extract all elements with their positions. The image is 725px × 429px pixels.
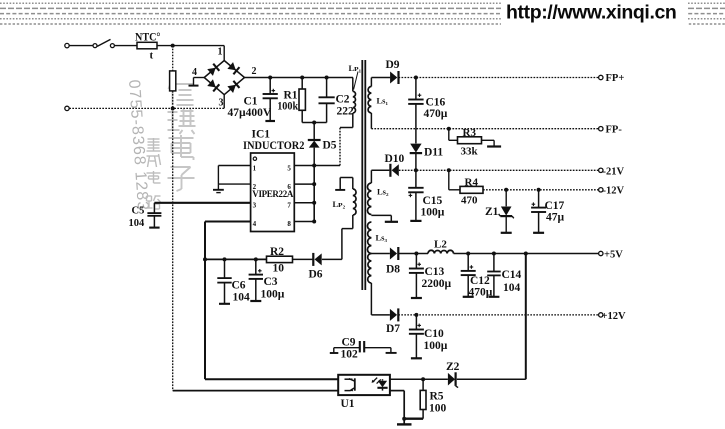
svg-text:104: 104 <box>503 282 521 294</box>
svg-text:C15: C15 <box>423 195 443 207</box>
svg-text:t: t <box>150 50 154 62</box>
svg-text:R3: R3 <box>463 127 477 139</box>
thermistor NTC <box>135 32 161 62</box>
terminal +5V <box>599 250 624 261</box>
svg-text:D6: D6 <box>309 269 323 281</box>
label INDUCTOR2 <box>243 140 305 152</box>
bridge minus stub ground <box>189 78 205 86</box>
svg-text:R2: R2 <box>270 246 284 258</box>
capacitor C14 <box>487 254 521 297</box>
inductor Ls2 secondary winding <box>367 170 389 214</box>
wire <box>390 378 423 380</box>
svg-text:3: 3 <box>219 98 224 109</box>
svg-text:2200µ: 2200µ <box>422 278 452 290</box>
node junction <box>414 252 418 256</box>
node junction <box>203 257 207 261</box>
op-amp U IC1 VIPER22A <box>251 153 295 232</box>
capacitor C10 <box>409 315 448 358</box>
svg-text:Lᴘ₂: Lᴘ₂ <box>333 199 346 209</box>
svg-text:+12V: +12V <box>602 311 626 322</box>
wire -21V rail <box>399 169 599 171</box>
svg-text:104: 104 <box>233 292 251 304</box>
wire feedback line <box>205 258 267 260</box>
svg-text:C9: C9 <box>342 337 356 349</box>
capacitor C1 <box>228 78 278 122</box>
svg-text:C10: C10 <box>424 328 444 340</box>
svg-text:Lᴘ₁: Lᴘ₁ <box>349 63 362 73</box>
node junction <box>402 417 406 421</box>
svg-text:D9: D9 <box>386 59 400 71</box>
wire <box>223 95 225 109</box>
diode D9 <box>386 59 400 84</box>
capacitor C3 <box>249 259 285 301</box>
wire pin3 <box>154 202 250 204</box>
svg-text:C16: C16 <box>426 97 446 109</box>
svg-text:R5: R5 <box>430 391 444 403</box>
svg-text:FP-: FP- <box>606 124 623 135</box>
node junction <box>466 252 528 256</box>
wire FP+ rail <box>399 77 599 79</box>
svg-text:102: 102 <box>341 349 359 361</box>
diode D6 <box>309 253 323 281</box>
svg-text:104: 104 <box>129 218 146 229</box>
svg-text:R4: R4 <box>465 177 479 189</box>
inductor Ls1 secondary winding <box>368 78 390 129</box>
svg-text:+5V: +5V <box>604 250 623 261</box>
svg-text:D10: D10 <box>385 153 405 165</box>
svg-text:100µ: 100µ <box>424 340 448 352</box>
diode D7 <box>386 308 400 335</box>
watermark char qi <box>168 109 196 134</box>
diode D11 <box>410 144 444 171</box>
node junction <box>414 76 418 80</box>
svg-text:C5: C5 <box>132 206 145 217</box>
node junction <box>312 164 316 224</box>
terminal FP+ <box>599 73 625 84</box>
capacitor C13 <box>409 254 452 299</box>
svg-text:1: 1 <box>218 47 223 58</box>
node 2 <box>252 66 257 77</box>
svg-text:C3: C3 <box>264 276 278 288</box>
svg-text:VIPER22A: VIPER22A <box>252 189 294 199</box>
wire <box>157 45 224 47</box>
resistor R5 <box>404 379 446 419</box>
terminal -21V <box>599 166 625 177</box>
svg-text:-21V: -21V <box>603 166 625 177</box>
watermark char lu small <box>147 196 161 209</box>
resistor R4 <box>460 177 483 207</box>
switch S1 <box>93 39 114 47</box>
svg-text:http://www.xinqi.cn: http://www.xinqi.cn <box>506 2 676 24</box>
svg-text:NTC°: NTC° <box>135 32 161 44</box>
node junction <box>223 257 258 261</box>
svg-text:47µ400V: 47µ400V <box>228 107 272 119</box>
wire pin4 <box>205 222 251 260</box>
wire <box>390 391 404 424</box>
wire -12V rail <box>483 189 599 191</box>
wire <box>371 314 390 316</box>
zener diode D5 <box>308 140 337 166</box>
resistor R2 <box>267 246 313 275</box>
svg-text:D5: D5 <box>323 140 337 152</box>
svg-text:C12: C12 <box>470 275 490 287</box>
node junction <box>504 188 540 192</box>
wire opto input <box>205 259 338 379</box>
capacitor C5 <box>129 203 162 229</box>
svg-text:100k: 100k <box>277 101 299 113</box>
wire <box>322 258 342 260</box>
svg-text:D8: D8 <box>386 264 400 276</box>
bridge rectifier <box>204 61 244 95</box>
node junction <box>171 106 175 110</box>
diode D10 <box>371 153 404 177</box>
node junction <box>447 127 451 131</box>
wire pin2 <box>218 183 250 185</box>
inductor Ls3 secondary winding <box>367 222 387 315</box>
wire <box>415 129 417 144</box>
svg-text:470µ: 470µ <box>424 108 448 120</box>
node junction <box>312 121 316 125</box>
diode D8 <box>386 247 400 276</box>
wire <box>69 45 93 47</box>
svg-text:C14: C14 <box>502 269 522 281</box>
svg-text:C2: C2 <box>336 94 350 106</box>
wire -12V branch <box>449 170 460 190</box>
wire <box>398 253 428 255</box>
svg-text:10: 10 <box>273 263 285 275</box>
capacitor C2 <box>319 78 355 123</box>
svg-text:C6: C6 <box>232 280 246 292</box>
optocoupler U1 <box>338 375 390 395</box>
header banner lines <box>0 0 725 27</box>
wire <box>313 123 315 140</box>
svg-text:100µ: 100µ <box>421 207 445 219</box>
capacitor C15 <box>408 170 445 221</box>
wire opto return <box>173 108 339 390</box>
inductor L2 <box>428 239 454 254</box>
svg-text:470: 470 <box>461 195 478 207</box>
resistor R1 <box>277 78 305 123</box>
svg-text:4: 4 <box>192 67 197 78</box>
svg-text:L2: L2 <box>434 239 447 251</box>
label IC1 <box>252 129 271 141</box>
svg-text:Lѕ₂: Lѕ₂ <box>377 187 389 197</box>
wire <box>302 122 326 124</box>
capacitor C12 <box>461 254 493 299</box>
winding tap ground <box>371 215 398 221</box>
capacitor C6 <box>217 259 250 303</box>
wire <box>115 45 138 47</box>
watermark char dian <box>169 135 194 160</box>
watermark phone number 0755-8368 1283 <box>125 79 151 212</box>
wire +5V feedback drop <box>457 254 526 380</box>
node junction <box>268 76 328 80</box>
svg-text:3: 3 <box>253 202 257 210</box>
svg-text:IC1: IC1 <box>252 129 271 141</box>
node junction <box>171 44 175 48</box>
wire <box>371 253 390 255</box>
inductor Lp2 aux winding <box>333 178 357 260</box>
svg-text:U1: U1 <box>341 398 355 410</box>
svg-text:INDUCTOR2: INDUCTOR2 <box>243 140 305 152</box>
svg-text:-12V: -12V <box>603 186 625 197</box>
svg-text:2: 2 <box>252 66 257 77</box>
wire <box>339 128 341 166</box>
svg-text:47µ: 47µ <box>546 212 565 224</box>
wire +12V rail <box>398 314 598 316</box>
wire +5V rail <box>454 253 599 255</box>
svg-text:FP+: FP+ <box>606 73 625 84</box>
svg-text:Lѕ₁: Lѕ₁ <box>377 96 389 106</box>
svg-text:4: 4 <box>253 220 257 228</box>
zener diode Z1 <box>485 190 514 233</box>
svg-text:C13: C13 <box>425 266 445 278</box>
node junction <box>414 168 451 172</box>
zener diode Z2 <box>423 361 460 388</box>
input terminal L <box>65 43 69 47</box>
svg-text:222: 222 <box>337 106 355 118</box>
terminal FP- <box>599 124 623 135</box>
svg-text:8: 8 <box>287 220 291 228</box>
input terminal N <box>65 106 69 110</box>
svg-text:100: 100 <box>429 403 447 415</box>
svg-text:Z2: Z2 <box>446 361 460 373</box>
svg-text:D11: D11 <box>424 147 443 159</box>
ground <box>213 184 224 193</box>
capacitor C17 <box>531 190 564 233</box>
wire <box>69 107 224 109</box>
node 3 <box>219 98 224 109</box>
capacitor C16 <box>408 78 448 129</box>
inductor Lp1 primary winding <box>340 63 362 128</box>
wire FP- rail <box>371 128 598 130</box>
svg-text:1: 1 <box>253 164 257 172</box>
transformer core <box>362 60 365 290</box>
resistor R3 <box>449 127 501 158</box>
header url text <box>506 2 676 24</box>
svg-text:Lѕ₃: Lѕ₃ <box>376 233 388 243</box>
label U1 <box>341 398 355 410</box>
node 1 <box>218 47 223 58</box>
watermark char cheng small <box>147 154 161 167</box>
watermark char xin <box>169 80 194 105</box>
capacitor C9 <box>330 337 397 361</box>
fusible resistor <box>170 46 176 109</box>
svg-text:Z1: Z1 <box>485 206 499 218</box>
svg-text:C17: C17 <box>545 200 565 212</box>
node junction <box>421 377 425 381</box>
watermark char ji small <box>147 138 161 151</box>
svg-text:5: 5 <box>287 164 291 172</box>
watermark char zi <box>168 167 195 191</box>
svg-text:33k: 33k <box>461 146 479 158</box>
node junction <box>414 313 418 317</box>
watermark char dian small <box>147 171 161 183</box>
wire pin1 <box>218 166 250 185</box>
wire drain pins <box>294 166 340 222</box>
terminal -12V <box>599 186 625 197</box>
ground <box>397 423 412 425</box>
svg-text:D7: D7 <box>386 323 400 335</box>
svg-text:100µ: 100µ <box>261 289 285 301</box>
terminal +12V <box>599 311 626 322</box>
wire <box>223 46 225 61</box>
svg-text:C1: C1 <box>244 96 258 108</box>
svg-text:7: 7 <box>287 202 291 210</box>
wire dc rail <box>245 77 354 79</box>
node 4 <box>192 67 197 78</box>
